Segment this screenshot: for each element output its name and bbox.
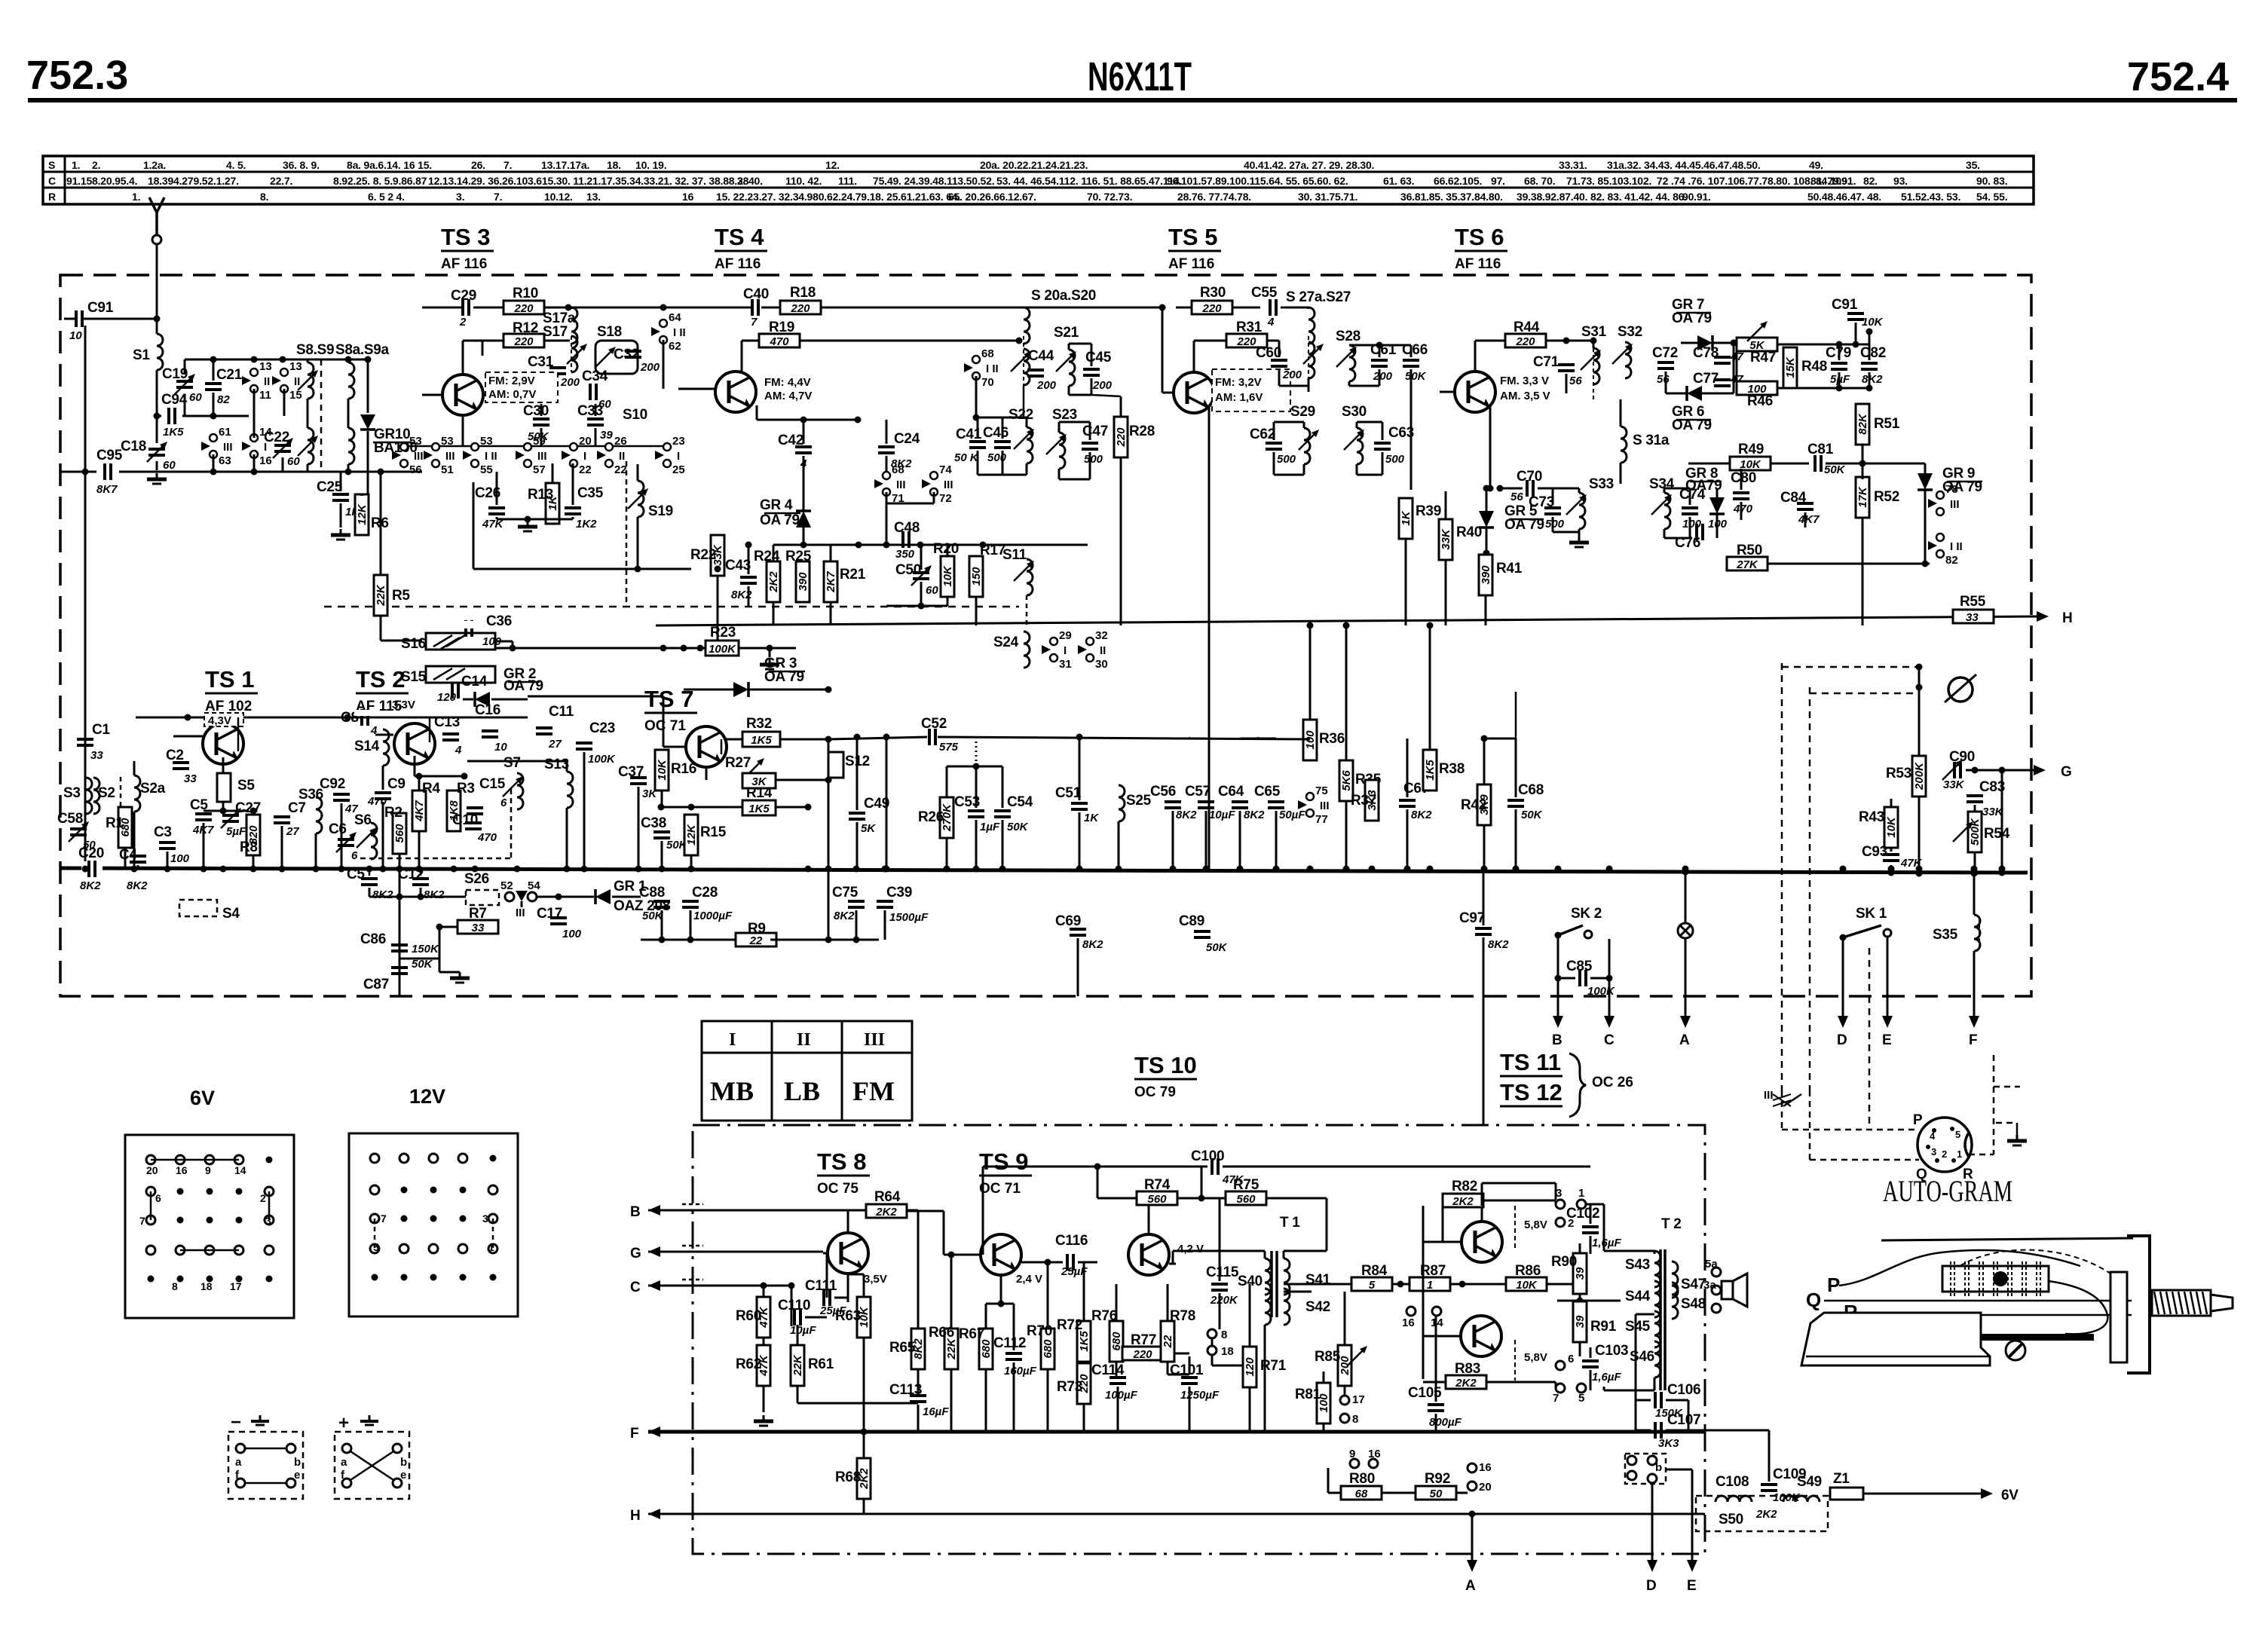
svg-text:1,6µF: 1,6µF: [1592, 1237, 1621, 1249]
capacitor C8: [362, 709, 368, 726]
capacitor C35: [565, 508, 581, 514]
terminal 3: [1556, 1200, 1565, 1209]
svg-text:R85: R85: [1315, 1349, 1341, 1365]
resistor R48: [1783, 347, 1797, 388]
wire: [2001, 770, 2003, 873]
svg-text:65. 20.26.66.12.67.: 65. 20.26.66.12.67.: [948, 191, 1036, 203]
svg-text:12K: 12K: [685, 824, 698, 846]
svg-text:R7: R7: [469, 906, 487, 922]
wire H line: [656, 616, 2038, 625]
arrow C: [1604, 1016, 1615, 1028]
svg-text:68: 68: [892, 463, 904, 476]
svg-text:5a: 5a: [1705, 1258, 1718, 1271]
svg-text:5,8V: 5,8V: [1524, 1219, 1547, 1231]
coil S2a: [134, 775, 140, 812]
dashed pickup line: [1781, 663, 1783, 1090]
transistor TS6 leads: [1440, 391, 1454, 393]
transistor TS4: [715, 372, 756, 412]
svg-text:C10: C10: [452, 812, 478, 828]
svg-text:2: 2: [459, 316, 467, 329]
coil S29: [1304, 428, 1310, 464]
wire: [399, 897, 401, 996]
svg-text:500: 500: [987, 451, 1007, 464]
ground: [2007, 1135, 2027, 1145]
wire: [886, 737, 888, 869]
wire: [683, 648, 684, 690]
wire: [1557, 1300, 1621, 1302]
switch contact 53-51: [424, 443, 439, 467]
svg-text:R26: R26: [918, 809, 944, 825]
svg-text:S4: S4: [222, 906, 240, 922]
wire: [1855, 275, 1856, 310]
capacitor C95: [96, 464, 119, 479]
wire: [663, 307, 751, 309]
svg-text:SK 2: SK 2: [1571, 906, 1602, 922]
svg-text:7: 7: [139, 1215, 145, 1227]
svg-text:2K2: 2K2: [767, 571, 780, 593]
svg-text:1.: 1.: [132, 191, 140, 203]
svg-text:R: R: [1963, 1167, 1973, 1182]
wire secondary taps: [1284, 1291, 1312, 1293]
capacitor C44: [1027, 370, 1044, 376]
svg-text:62: 62: [669, 340, 681, 353]
wire: [1279, 385, 1308, 387]
svg-text:R52: R52: [1874, 489, 1899, 505]
svg-text:10K: 10K: [1885, 816, 1898, 838]
svg-text:R42: R42: [1461, 797, 1486, 813]
svg-text:28.76. 77.74.78.: 28.76. 77.74.78.: [1177, 191, 1251, 203]
svg-text:2K2: 2K2: [1452, 1195, 1474, 1208]
voltage note TS3: [485, 372, 558, 402]
svg-text:OC 26: OC 26: [1592, 1075, 1633, 1090]
wire: [1162, 307, 1164, 393]
coil S27: [1308, 342, 1315, 378]
svg-text:TS 5: TS 5: [1168, 224, 1217, 250]
svg-text:C11: C11: [549, 704, 574, 720]
svg-text:S8.S9: S8.S9: [296, 342, 334, 358]
resistor R21: [824, 561, 837, 602]
wire: [439, 897, 440, 927]
svg-text:8K2: 8K2: [834, 910, 855, 922]
svg-text:77: 77: [1315, 813, 1328, 826]
svg-text:68. 70.: 68. 70.: [1524, 175, 1555, 187]
switch contact 26-22: [597, 443, 613, 467]
dashed DIN wiring: [1781, 1090, 1783, 1130]
capacitor C70: [1527, 480, 1533, 497]
svg-text:R38: R38: [1439, 761, 1465, 777]
resistor R46: [1737, 381, 1777, 395]
svg-text:S21: S21: [1054, 325, 1079, 341]
coil S24: [1024, 631, 1030, 668]
svg-text:C40: C40: [743, 286, 769, 302]
svg-text:C89: C89: [1179, 913, 1204, 929]
svg-text:22K: 22K: [791, 1354, 804, 1377]
svg-text:4: 4: [455, 744, 462, 757]
svg-text:17: 17: [230, 1280, 242, 1292]
svg-text:E: E: [1687, 1578, 1696, 1594]
svg-text:S29: S29: [1290, 404, 1315, 420]
svg-text:C4: C4: [119, 847, 137, 863]
capacitor C106: [1655, 1392, 1661, 1408]
contact trimmers: [1773, 1094, 1791, 1106]
transistor TS5 leads: [1193, 341, 1195, 372]
fuse Z1: [1830, 1488, 1863, 1500]
wire: [1691, 1469, 1694, 1564]
capacitor C45: [1083, 369, 1100, 375]
transistor TS9 leads: [951, 1254, 980, 1256]
capacitor C92: [333, 794, 350, 800]
capacitor C56: [1165, 802, 1181, 808]
svg-text:R5: R5: [392, 588, 410, 604]
svg-text:70: 70: [981, 376, 994, 389]
svg-text:C35: C35: [577, 485, 604, 501]
resistor R37: [1365, 780, 1379, 821]
dashed pickup line SK1: [1869, 948, 1871, 1130]
svg-text:200: 200: [560, 376, 580, 389]
resistor R60: [757, 1297, 770, 1338]
svg-text:220: 220: [790, 302, 810, 315]
svg-text:220: 220: [1115, 427, 1128, 448]
resistor R8: [246, 815, 260, 855]
transistor TS2 leads: [375, 734, 393, 736]
svg-text:75: 75: [1315, 784, 1328, 797]
svg-text:8K2: 8K2: [1244, 809, 1265, 821]
svg-text:R49: R49: [1738, 442, 1764, 457]
svg-text:GR 4: GR 4: [760, 497, 793, 513]
svg-text:R36: R36: [1319, 731, 1345, 747]
svg-text:16: 16: [1402, 1316, 1415, 1329]
capacitor C91: [76, 310, 82, 327]
svg-text:I: I: [583, 450, 586, 463]
svg-text:39: 39: [1574, 1315, 1587, 1328]
terminal spk: [1712, 1304, 1721, 1313]
svg-text:2,4 V: 2,4 V: [1016, 1273, 1042, 1286]
svg-text:18: 18: [1221, 1345, 1234, 1358]
svg-text:S46: S46: [1630, 1349, 1654, 1365]
capacitor C13: [442, 734, 459, 740]
switch contact 53-56: [392, 443, 408, 467]
svg-text:TS 10: TS 10: [1134, 1052, 1197, 1078]
resistor R50: [1727, 557, 1768, 570]
svg-text:R25: R25: [785, 549, 812, 564]
svg-text:R68: R68: [835, 1469, 861, 1485]
wire: [422, 307, 463, 309]
wire: [568, 307, 663, 309]
wire R9 line: [641, 939, 742, 941]
svg-text:I: I: [1064, 644, 1067, 657]
capacitor C54: [994, 811, 1011, 817]
svg-text:36.81.85. 35.37.84.80.: 36.81.85. 35.37.84.80.: [1400, 191, 1503, 203]
svg-text:S30: S30: [1342, 404, 1367, 420]
capacitor C37: [630, 778, 647, 784]
capacitor C64: [1232, 802, 1248, 808]
capacitor C60: [1271, 360, 1287, 366]
svg-text:53: 53: [441, 435, 454, 448]
svg-text:II: II: [264, 375, 270, 388]
svg-text:C52: C52: [921, 716, 947, 732]
svg-text:AF 102: AF 102: [205, 699, 252, 714]
capacitor C36: [466, 620, 472, 637]
svg-text:S28: S28: [1336, 329, 1360, 344]
transistor TS6: [1455, 372, 1495, 412]
svg-text:C102: C102: [1566, 1206, 1599, 1222]
svg-text:AF 116: AF 116: [715, 256, 761, 272]
svg-text:S49: S49: [1797, 1474, 1822, 1490]
svg-text:e: e: [294, 1469, 300, 1482]
svg-text:1K5: 1K5: [1424, 760, 1437, 781]
wire: [1621, 483, 1741, 485]
wire: [1960, 702, 1961, 763]
svg-text:35.: 35.: [1966, 159, 1980, 171]
transistor TS2: [394, 723, 435, 764]
svg-text:S 27a.S27: S 27a.S27: [1286, 289, 1351, 305]
wire R23 feed: [495, 647, 513, 649]
capacitor C114: [1110, 1378, 1126, 1384]
transistor TS3 leads: [422, 394, 442, 396]
svg-text:R86: R86: [1515, 1263, 1541, 1279]
svg-text:C9: C9: [387, 776, 406, 792]
svg-text:752.3: 752.3: [26, 53, 128, 98]
resistor R40: [1439, 519, 1452, 560]
wire AF line: [828, 737, 927, 739]
svg-text:TS 11: TS 11: [1500, 1049, 1561, 1075]
svg-text:AF 116: AF 116: [1168, 256, 1214, 272]
capacitor C67: [1399, 800, 1416, 806]
bus junction dots: [82, 866, 89, 873]
resistor R5: [374, 575, 387, 616]
svg-text:50: 50: [1430, 1488, 1443, 1500]
svg-text:18.: 18.: [607, 159, 621, 171]
svg-text:60: 60: [287, 455, 300, 468]
resistor R31: [1226, 334, 1267, 347]
svg-text:13.17.17a.: 13.17.17a.: [541, 159, 589, 171]
wire: [84, 770, 87, 778]
svg-text:P: P: [1827, 1274, 1840, 1296]
capacitor C48: [903, 531, 909, 548]
capacitor C32: [625, 351, 641, 357]
svg-text:16µF: 16µF: [923, 1405, 949, 1418]
wire: [156, 461, 158, 470]
svg-text:51.52.43. 53.: 51.52.43. 53.: [1901, 191, 1960, 203]
svg-text:S2: S2: [98, 785, 115, 801]
svg-text:R60: R60: [736, 1308, 761, 1324]
svg-text:III: III: [414, 450, 424, 463]
capacitor C87: [391, 968, 408, 974]
svg-text:200K: 200K: [1913, 762, 1926, 790]
svg-text:10: 10: [494, 741, 507, 754]
wire: [637, 464, 639, 481]
svg-text:I II: I II: [1950, 540, 1963, 553]
resistor R53: [1912, 756, 1926, 797]
svg-text:C43: C43: [725, 558, 751, 573]
wire: [1930, 831, 1963, 833]
switch contact 61-63: [201, 434, 217, 458]
lamp A: [1678, 923, 1693, 938]
svg-text:e: e: [400, 1469, 406, 1482]
svg-text:12V: 12V: [409, 1085, 445, 1108]
svg-text:C101: C101: [1170, 1362, 1204, 1378]
capacitor C115: [1211, 1284, 1228, 1290]
resistor R24: [767, 561, 780, 602]
trimmer capacitor C18: [148, 449, 165, 455]
coil S32: [1625, 342, 1631, 378]
svg-text:R: R: [48, 191, 56, 203]
svg-text:50K: 50K: [1007, 821, 1029, 833]
svg-text:S16: S16: [401, 636, 426, 652]
svg-text:R12: R12: [513, 320, 538, 336]
resistor R14: [742, 800, 776, 815]
coil S12: [828, 752, 843, 778]
resistor R72: [1077, 1321, 1091, 1362]
wire: [978, 417, 1027, 419]
terminal 17: [1340, 1396, 1349, 1405]
svg-text:Q: Q: [1916, 1167, 1927, 1182]
svg-text:8K2: 8K2: [80, 879, 101, 892]
capacitor C5a: [195, 814, 212, 820]
svg-text:C1: C1: [92, 722, 110, 738]
svg-text:C36: C36: [486, 613, 512, 629]
svg-text:470: 470: [477, 831, 497, 844]
switch contact 75-77: [1298, 793, 1314, 817]
svg-text:100µF: 100µF: [1105, 1389, 1138, 1402]
svg-text:14: 14: [1431, 1316, 1443, 1329]
svg-text:470: 470: [1733, 503, 1753, 515]
coil S9a: [348, 428, 354, 464]
wire long: [473, 568, 691, 570]
resistor R85: [1338, 1345, 1351, 1386]
svg-text:OC 71: OC 71: [644, 718, 686, 734]
svg-text:C63: C63: [1388, 425, 1414, 441]
svg-text:S 31a: S 31a: [1633, 433, 1670, 448]
svg-text:56: 56: [409, 463, 422, 476]
svg-text:33: 33: [90, 749, 103, 762]
arrow F: [1969, 1016, 1979, 1028]
svg-text:S24: S24: [993, 635, 1019, 650]
wire TS7 collector: [699, 648, 701, 690]
svg-text:74: 74: [939, 463, 952, 476]
svg-text:C88: C88: [639, 885, 665, 901]
svg-text:C72: C72: [1652, 345, 1678, 361]
svg-text:150: 150: [970, 567, 983, 586]
svg-text:R13: R13: [528, 487, 553, 503]
svg-text:I: I: [677, 450, 680, 463]
svg-text:1000µF: 1000µF: [693, 910, 733, 922]
speaker: [1722, 1281, 1733, 1299]
svg-text:TS 9: TS 9: [979, 1148, 1028, 1175]
svg-text:390: 390: [1480, 565, 1492, 585]
svg-text:R54: R54: [1984, 826, 2010, 842]
svg-text:2K2: 2K2: [875, 1206, 897, 1219]
ground: [1569, 537, 1589, 547]
svg-text:C93: C93: [1862, 844, 1887, 860]
resistor R81: [1317, 1383, 1330, 1423]
wire: [933, 461, 935, 476]
capacitor C65: [1268, 802, 1284, 808]
coil S3: [86, 778, 92, 814]
svg-text:16: 16: [259, 454, 272, 467]
wire dashes at amp box left edge: [682, 1204, 703, 1280]
svg-text:52: 52: [500, 879, 513, 892]
svg-text:R72: R72: [1057, 1317, 1082, 1333]
transistor TS10 leads: [1097, 1255, 1128, 1257]
svg-text:C100: C100: [1191, 1148, 1224, 1164]
svg-text:R51: R51: [1874, 416, 1900, 432]
resistor R75: [1226, 1191, 1266, 1205]
svg-text:10.12.: 10.12.: [544, 191, 573, 203]
svg-text:C24: C24: [894, 431, 920, 447]
wire: [986, 1303, 1014, 1305]
svg-text:C58: C58: [57, 811, 83, 827]
svg-text:C44: C44: [1028, 348, 1054, 364]
coil S20: [1024, 349, 1030, 385]
svg-text:S19: S19: [648, 503, 673, 519]
svg-text:560: 560: [1236, 1193, 1256, 1206]
wire 6V: [1820, 1493, 1830, 1494]
resistor R41: [1479, 555, 1492, 595]
svg-text:22: 22: [614, 463, 627, 476]
svg-text:C86: C86: [360, 931, 386, 947]
wire: [1733, 343, 1735, 393]
resistor R63: [857, 1297, 871, 1338]
resistor R61: [791, 1345, 804, 1386]
svg-text:C51: C51: [1055, 785, 1082, 801]
svg-text:50K: 50K: [1521, 809, 1543, 821]
wire B input: [648, 1205, 660, 1216]
svg-text:7: 7: [381, 1212, 387, 1225]
dashed pickup line: [1810, 693, 1918, 695]
capacitor C21: [205, 384, 222, 390]
svg-text:50K: 50K: [1405, 370, 1427, 383]
svg-text:S26: S26: [464, 871, 489, 887]
screw head: [2006, 1341, 2025, 1360]
wire: [1515, 738, 1517, 740]
svg-text:N6X11T: N6X11T: [1088, 54, 1192, 99]
svg-text:500: 500: [1084, 453, 1103, 466]
capacitor C108: [1716, 1496, 1752, 1502]
resistor R65: [911, 1329, 925, 1369]
svg-text:70. 72.73.: 70. 72.73.: [1087, 191, 1132, 203]
terminal 20: [1468, 1482, 1477, 1491]
svg-text:S35: S35: [1933, 927, 1958, 943]
svg-text:220: 220: [1201, 302, 1222, 315]
resistor R1: [118, 807, 132, 848]
svg-text:C14: C14: [461, 674, 488, 690]
svg-text:F: F: [630, 1426, 638, 1442]
terminal 14: [1432, 1307, 1441, 1316]
svg-text:S: S: [48, 159, 55, 171]
resistor R91: [1573, 1301, 1587, 1342]
svg-text:S7: S7: [503, 755, 521, 771]
svg-text:C81: C81: [1807, 442, 1834, 457]
transistor TS10: [1128, 1234, 1169, 1275]
svg-text:C19: C19: [162, 366, 188, 382]
svg-text:200: 200: [640, 361, 660, 374]
svg-text:500: 500: [1277, 453, 1296, 466]
diode GR10: [360, 414, 375, 430]
svg-text:220: 220: [513, 302, 534, 315]
svg-text:63: 63: [219, 454, 231, 467]
svg-text:OC 71: OC 71: [979, 1181, 1021, 1197]
svg-text:680: 680: [1110, 1332, 1123, 1351]
svg-text:R4: R4: [422, 781, 440, 797]
svg-text:4: 4: [1267, 316, 1275, 329]
turntable pictorial: [1881, 1238, 2133, 1240]
svg-text:575: 575: [939, 741, 959, 754]
wire: [1379, 738, 1407, 739]
wire: [1068, 344, 1070, 350]
svg-text:C90: C90: [1949, 749, 1975, 765]
svg-text:III: III: [223, 441, 233, 454]
